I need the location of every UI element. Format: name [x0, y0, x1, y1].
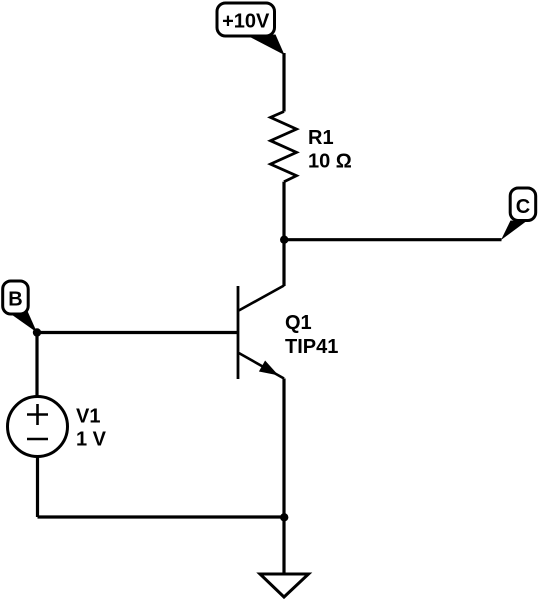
+10V flag box [217, 3, 275, 36]
node dot at ground junction [280, 513, 288, 521]
+10V flag pointer [247, 35, 285, 56]
transistor Q1 base bar [237, 286, 240, 379]
transistor Q1 collector diagonal [239, 286, 284, 311]
B flag pointer [12, 310, 38, 333]
wire B node down to V1 top [35, 333, 38, 398]
svg-text:R1: R1 [308, 127, 334, 149]
C flag pointer [501, 221, 526, 241]
svg-text:C: C [516, 196, 530, 218]
base wire from B node to transistor [37, 331, 238, 334]
svg-text:+10V: +10V [222, 11, 270, 33]
B flag box [3, 281, 29, 314]
node dot at B [33, 328, 41, 336]
transistor Q1 emitter diagonal [239, 353, 284, 379]
ground symbol triangle [260, 574, 309, 597]
V1 minus sign [27, 438, 48, 441]
svg-text:V1: V1 [76, 406, 100, 428]
wire node down to ground symbol [282, 517, 285, 574]
wire resistor bottom to node C [282, 182, 285, 240]
svg-text:TIP41: TIP41 [285, 336, 338, 358]
wire node down to collector [282, 240, 285, 286]
svg-text:Q1: Q1 [285, 312, 312, 334]
wire node to C flag [284, 238, 502, 241]
svg-text:B: B [8, 289, 22, 311]
C flag box [510, 188, 536, 221]
bottom wire to ground node [38, 515, 285, 518]
wire emitter down to bottom node [282, 379, 285, 518]
svg-text:1 V: 1 V [76, 429, 107, 451]
wire V1 bottom down [36, 456, 39, 517]
transistor Q1 emitter arrow [259, 361, 279, 376]
wire from +10V flag down to resistor R1 top [282, 53, 285, 112]
node dot at collector junction [280, 236, 288, 244]
V1 plus sign [27, 413, 48, 416]
svg-text:10 Ω: 10 Ω [308, 151, 352, 173]
resistor R1 zigzag [271, 112, 297, 182]
voltage source V1 circle [8, 397, 68, 457]
